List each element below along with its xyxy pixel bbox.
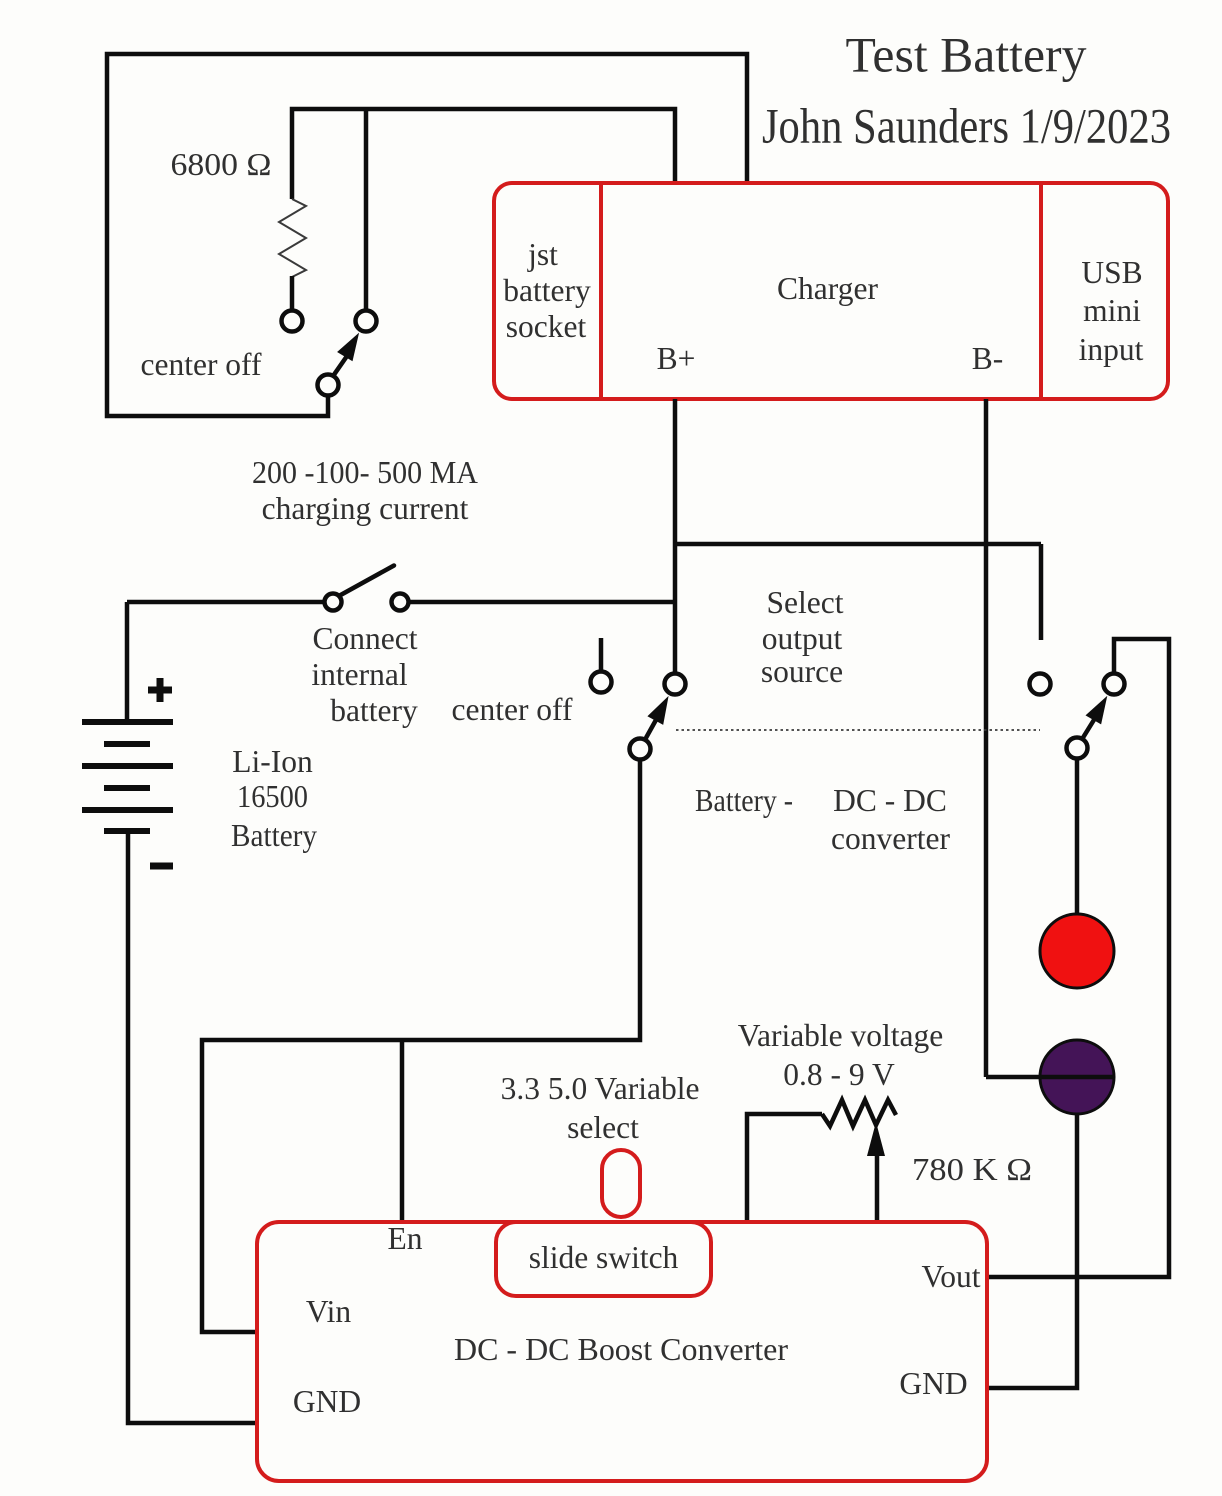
svg-text:Battery: Battery [231, 818, 317, 853]
terminal resistor throw [282, 311, 303, 332]
terminal SW2 right [392, 594, 409, 611]
terminal SW3 common [630, 739, 651, 760]
terminal SW3 upper (B+) [665, 674, 686, 695]
wire SW4 common to jack [1075, 759, 1080, 914]
wire switch upper throw drop [364, 109, 369, 310]
svg-text:USB: USB [1081, 255, 1142, 290]
wire B- drop [984, 399, 989, 1077]
wire battery positive lead [125, 602, 130, 722]
wire B+ drop to selector [673, 399, 678, 673]
switch SW3 arrowhead [647, 696, 668, 725]
slide switch box [496, 1222, 711, 1296]
svg-text:DC - DC: DC - DC [833, 783, 947, 818]
svg-text:B+: B+ [657, 341, 696, 376]
svg-text:center off: center off [452, 692, 573, 727]
wire second rail to charger top [292, 109, 675, 199]
svg-text:Vout: Vout [922, 1259, 981, 1294]
svg-text:select: select [567, 1110, 639, 1145]
terminal center off mid [591, 672, 612, 693]
svg-text:Test Battery: Test Battery [846, 27, 1087, 83]
svg-text:mini: mini [1083, 293, 1141, 328]
svg-text:Variable voltage: Variable voltage [738, 1018, 944, 1053]
svg-text:battery: battery [330, 693, 418, 728]
potentiometer zigzag [822, 1100, 896, 1126]
wire battery negative to GND [128, 831, 257, 1423]
wire battery rail right [409, 600, 675, 605]
svg-text:Connect: Connect [313, 621, 418, 656]
charger divider left [599, 183, 603, 399]
switch SW3 blade [646, 719, 656, 738]
purple jack J2 [1040, 1040, 1114, 1114]
svg-text:B-: B- [972, 341, 1004, 376]
wire through purple jack [986, 1075, 1114, 1080]
svg-text:Charger: Charger [777, 271, 878, 306]
switch SW4 blade [1084, 719, 1095, 737]
svg-text:internal: internal [311, 657, 407, 692]
svg-text:En: En [388, 1221, 423, 1256]
terminal select DC-DC side [1030, 674, 1051, 695]
battery B1 plates [82, 722, 173, 831]
svg-text:200 -100- 500 MA: 200 -100- 500 MA [252, 455, 478, 490]
potentiometer wiper stem [875, 1150, 880, 1222]
svg-text:source: source [761, 654, 843, 689]
svg-text:6800 Ω: 6800 Ω [171, 147, 272, 182]
svg-text:780 K Ω: 780 K Ω [912, 1152, 1032, 1187]
svg-text:center off: center off [141, 347, 262, 382]
svg-text:charging current: charging current [262, 491, 469, 526]
potentiometer VR1 body lead [747, 1114, 822, 1222]
svg-text:output: output [762, 621, 843, 656]
stub center off mid [599, 638, 604, 671]
potentiometer wiper arrowhead [867, 1122, 885, 1156]
svg-text:Battery -: Battery - [695, 783, 793, 818]
switch SW1 arrowhead [337, 333, 359, 362]
charger U1 box [494, 183, 1168, 399]
svg-text:jst: jst [527, 237, 558, 272]
switch SW4 arrowhead [1086, 696, 1108, 725]
switch SW1 blade [335, 356, 347, 374]
wire En branch [400, 1040, 405, 1222]
terminal upper throw [356, 311, 377, 332]
dotted separator [676, 729, 1040, 731]
terminal SW4 upper [1104, 674, 1125, 695]
svg-text:Select: Select [767, 585, 844, 620]
svg-text:GND: GND [899, 1366, 967, 1401]
svg-text:battery: battery [503, 273, 591, 308]
boost converter U2 box [257, 1222, 987, 1481]
wire SW4 upper to right rail and Vout [987, 639, 1169, 1277]
svg-text:converter: converter [831, 821, 950, 856]
svg-text:slide switch: slide switch [529, 1240, 679, 1275]
svg-text:Li-Ion: Li-Ion [232, 744, 313, 779]
svg-text:Vin: Vin [306, 1294, 352, 1329]
slide switch actuator pill [602, 1150, 640, 1217]
svg-text:John Saunders 1/9/2023: John Saunders 1/9/2023 [762, 98, 1171, 154]
switch SW2 blade [337, 566, 394, 598]
terminal SW2 left [325, 594, 342, 611]
wire select branch [675, 544, 1041, 640]
red jack J1 [1040, 914, 1114, 988]
svg-text:0.8 - 9 V: 0.8 - 9 V [783, 1057, 895, 1092]
wire purple jack to GND [987, 1114, 1077, 1388]
wire resistor bottom lead [290, 276, 295, 310]
svg-text:GND: GND [293, 1384, 361, 1419]
battery plus sign [148, 678, 172, 702]
wire SW3 common to En/Vin [202, 760, 640, 1332]
charger divider right [1039, 183, 1043, 399]
wire top loop from charger top to left rail and bottom to switch common [107, 54, 747, 416]
wire battery rail left [127, 600, 325, 605]
svg-text:16500: 16500 [237, 779, 308, 814]
terminal SW1 common [318, 375, 339, 396]
svg-text:input: input [1079, 332, 1144, 367]
svg-text:DC - DC Boost Converter: DC - DC Boost Converter [454, 1332, 789, 1367]
battery minus sign [150, 863, 173, 870]
svg-text:socket: socket [506, 309, 587, 344]
resistor R1 zigzag [279, 199, 306, 277]
svg-text:3.3 5.0 Variable: 3.3 5.0 Variable [501, 1071, 700, 1106]
terminal SW4 common [1067, 738, 1088, 759]
